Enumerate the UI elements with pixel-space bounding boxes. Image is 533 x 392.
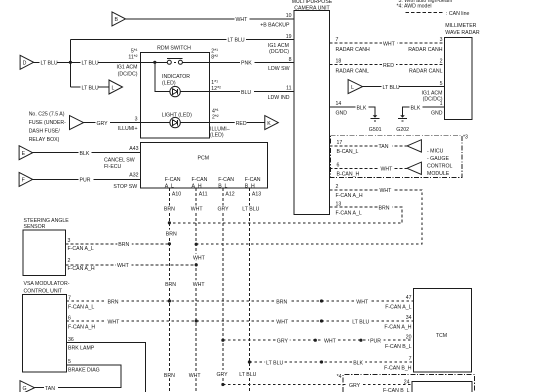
wire RED label <box>235 119 247 126</box>
svg-text:BRAKE DIAG: BRAKE DIAG <box>68 368 100 374</box>
svg-text:LT BLU: LT BLU <box>352 319 369 325</box>
ground G202 <box>400 115 405 118</box>
wire BLU label to camera pin 11 <box>240 88 254 95</box>
svg-text:RED: RED <box>236 121 247 127</box>
F-CAN B_H bus wire LT BLU (PCM A13 down) <box>248 188 250 392</box>
wire camera pin 18 to radar pin 2 (RED CAN) <box>330 64 445 66</box>
svg-text:GRY: GRY <box>349 383 361 389</box>
wire camera pin 7 to radar pin 3 (WHT CAN) <box>330 42 445 44</box>
svg-text:8*²: 8*² <box>211 54 218 60</box>
svg-text:G501: G501 <box>369 127 382 133</box>
node riser wire <box>69 39 71 87</box>
svg-text:12*²: 12*² <box>211 86 221 92</box>
connector L (out) <box>109 80 123 94</box>
svg-text:FI-ECU: FI-ECU <box>104 164 122 170</box>
svg-text:- GAUGE: - GAUGE <box>427 156 449 162</box>
millimeter wave radar unit <box>444 38 472 120</box>
light LED symbol <box>170 117 180 127</box>
connector E <box>19 146 32 160</box>
indicator LED symbol <box>170 86 180 96</box>
svg-text:BLK: BLK <box>411 105 421 111</box>
junction pin2 to WHT bus <box>195 263 198 266</box>
wire GRY bus to AWD pin 24 (GRY CAN) <box>223 384 412 386</box>
svg-text:LT BLU: LT BLU <box>82 61 99 67</box>
svg-text:G: G <box>23 386 27 392</box>
svg-text:5: 5 <box>440 81 443 87</box>
wire camera pin 13 to F-CAN A_L bus (BRN CAN) <box>169 207 402 223</box>
svg-text:+B BACKUP: +B BACKUP <box>260 23 290 29</box>
connector F <box>19 172 32 186</box>
wire fuse row through light LED to connector K (RED) <box>141 122 265 124</box>
wire sensor pin 2 to WHT bus (WHT CAN) <box>66 264 197 266</box>
svg-text:F-CAN: F-CAN <box>192 177 208 183</box>
wire VSA pin 7 to TCM pin 47 (BRN/WHT CAN) <box>66 300 413 302</box>
F-CAN A_L bus wire BRN (PCM A10 down) <box>168 188 170 392</box>
svg-text:5: 5 <box>68 359 71 365</box>
svg-text:- MICU: - MICU <box>427 148 444 154</box>
svg-text:2: 2 <box>68 258 71 264</box>
svg-text:GRY: GRY <box>97 121 109 127</box>
wire node to connector L (LT BLU) <box>70 86 109 88</box>
svg-text:(LED): (LED) <box>162 81 176 87</box>
svg-text:18: 18 <box>336 59 342 65</box>
svg-text:A10: A10 <box>172 191 181 197</box>
connector B <box>112 12 126 26</box>
svg-text:: CAN line: : CAN line <box>446 11 469 17</box>
svg-text:11: 11 <box>286 86 291 92</box>
wire VSA pin 6 to TCM pin 34 (WHT/LT BLU CAN) <box>66 320 413 322</box>
svg-text:A12: A12 <box>225 191 234 197</box>
svg-text:34: 34 <box>406 315 412 321</box>
svg-text:WHT: WHT <box>324 339 337 345</box>
svg-text:RADAR CANH: RADAR CANH <box>336 47 371 53</box>
svg-text:CONTROL: CONTROL <box>427 163 452 169</box>
svg-text:F: F <box>22 178 25 184</box>
junction camera A_H to bus <box>195 243 198 246</box>
svg-text:3: 3 <box>440 37 443 43</box>
svg-text:F-CAN A_L: F-CAN A_L <box>68 246 94 252</box>
svg-text:F-CAN B_L: F-CAN B_L <box>383 388 410 392</box>
svg-text:MULTIPURPOSE: MULTIPURPOSE <box>292 0 333 5</box>
svg-text:BRN: BRN <box>379 206 390 212</box>
wire D to node (LT BLU) <box>34 61 141 63</box>
MICU triangle 2 <box>407 162 421 174</box>
svg-text:*4: *4 <box>337 374 342 380</box>
wire F to PCM A32 (PUR) <box>33 178 141 180</box>
svg-text:GRY: GRY <box>277 339 289 345</box>
wire VSA pin 5 brake diag to connector G (TAN) <box>35 365 122 388</box>
svg-text:F-CAN A_H: F-CAN A_H <box>384 325 411 331</box>
multipurpose camera unit U-CAM <box>294 11 330 215</box>
PCM box <box>141 142 268 188</box>
svg-text:BRK LAMP: BRK LAMP <box>68 346 95 352</box>
svg-text:No. C25 (7.5 A): No. C25 (7.5 A) <box>29 112 65 118</box>
bus colour labels row 2 <box>164 280 177 287</box>
svg-text:BLK: BLK <box>80 151 90 157</box>
junction node on D wire <box>69 61 72 64</box>
svg-text:WHT: WHT <box>191 207 204 213</box>
connector G <box>20 381 35 392</box>
svg-text:MODULE: MODULE <box>427 171 450 177</box>
svg-text:WHT: WHT <box>117 263 130 269</box>
junction pin3 to BRN bus <box>168 242 171 245</box>
wire switch row to camera pin 8 (PNK) <box>141 61 294 63</box>
svg-text:*3: *3 <box>463 135 468 141</box>
svg-text:A13: A13 <box>252 191 261 197</box>
svg-text:WHT: WHT <box>189 373 202 379</box>
svg-text:A32: A32 <box>129 173 138 179</box>
svg-text:F-CAN A_H: F-CAN A_H <box>336 193 363 199</box>
svg-text:WHT: WHT <box>381 167 394 173</box>
svg-text:BRN: BRN <box>276 299 287 305</box>
switch bar <box>167 58 183 60</box>
svg-text:BRN: BRN <box>108 299 119 305</box>
svg-text:BRN: BRN <box>165 282 176 288</box>
TCM box <box>414 289 472 373</box>
svg-text:7: 7 <box>336 37 339 43</box>
svg-text:BRN: BRN <box>118 242 129 248</box>
svg-text:10: 10 <box>286 13 292 19</box>
wire camera pin 2 to F-CAN A_H bus (WHT CAN) <box>196 190 422 244</box>
F-CAN A_H bus wire WHT (PCM A11 down) <box>195 188 197 392</box>
svg-text:BLK: BLK <box>353 360 363 366</box>
svg-text:E: E <box>22 151 26 157</box>
svg-text:RADAR CANL: RADAR CANL <box>409 68 443 74</box>
connector K (out) <box>265 116 279 130</box>
wire L to radar pin 5 (LT BLU) <box>363 86 445 88</box>
svg-text:F-CAN A_L: F-CAN A_L <box>68 305 94 311</box>
switch contact gap <box>172 61 179 64</box>
fuse connector triangle <box>70 116 84 130</box>
svg-text:GND: GND <box>431 111 443 117</box>
svg-text:LDW IND: LDW IND <box>268 95 290 101</box>
svg-text:SENSOR: SENSOR <box>24 224 46 230</box>
svg-text:ILLUMI+: ILLUMI+ <box>118 126 138 132</box>
svg-text:(DC/DC): (DC/DC) <box>269 49 289 55</box>
svg-text:WAVE RADAR: WAVE RADAR <box>445 30 480 36</box>
svg-text:20: 20 <box>406 334 412 340</box>
svg-text:VSA MODULATOR-: VSA MODULATOR- <box>24 281 70 287</box>
MICU triangle 1 <box>407 140 421 152</box>
svg-text:CAMERA UNIT: CAMERA UNIT <box>294 5 330 11</box>
svg-text:3: 3 <box>135 116 138 122</box>
svg-text:LT BLU: LT BLU <box>266 360 283 366</box>
svg-text:WHT: WHT <box>356 299 369 305</box>
svg-text:3: 3 <box>68 238 71 244</box>
svg-text:14: 14 <box>336 101 342 107</box>
svg-text:B-CAN_L: B-CAN_L <box>337 149 359 155</box>
svg-text:7: 7 <box>409 356 412 362</box>
svg-text:F-CAN A_H: F-CAN A_H <box>68 266 95 272</box>
svg-text:A43: A43 <box>129 146 138 152</box>
svg-text:36: 36 <box>68 337 74 343</box>
svg-text:*4: AWD model: *4: AWD model <box>397 4 432 10</box>
junction inside RDM <box>153 61 156 64</box>
svg-text:IG1 ACM: IG1 ACM <box>116 65 137 71</box>
svg-text:TAN: TAN <box>379 144 389 150</box>
svg-text:WHT: WHT <box>108 319 121 325</box>
svg-text:(LED): (LED) <box>210 132 224 138</box>
svg-text:24: 24 <box>404 380 410 386</box>
svg-text:LT BLU: LT BLU <box>242 207 259 213</box>
svg-text:CANCEL SW: CANCEL SW <box>104 157 135 163</box>
svg-text:TCM: TCM <box>436 333 447 339</box>
svg-text:LT BLU: LT BLU <box>239 372 256 378</box>
wire camera pin 14 to ground G501 (BLK) <box>330 107 376 115</box>
wire camera pin 17 to MICU (TAN CAN) <box>330 145 408 147</box>
AWD module dash-dot box *4 <box>343 375 475 392</box>
BRN label below A_L junction <box>165 230 178 237</box>
svg-text:LT BLU: LT BLU <box>383 85 400 91</box>
svg-text:F-CAN A_L: F-CAN A_L <box>385 305 411 311</box>
svg-text:K: K <box>267 121 271 127</box>
wire junction down to indicator LED <box>155 62 294 91</box>
RDM switch box <box>141 52 210 137</box>
ground G501 <box>373 115 378 118</box>
svg-text:F-CAN A_H: F-CAN A_H <box>68 325 95 331</box>
svg-text:47: 47 <box>406 295 412 301</box>
WHT label below A_H junction <box>192 254 207 261</box>
svg-text:1: 1 <box>440 101 443 107</box>
svg-text:2*²: 2*² <box>212 114 219 120</box>
svg-text:FUSE (UNDER-: FUSE (UNDER- <box>29 120 66 126</box>
svg-text:DASH FUSE/: DASH FUSE/ <box>29 129 61 135</box>
connector D <box>20 55 33 69</box>
svg-text:2: 2 <box>336 184 339 190</box>
svg-text:B: B <box>115 17 119 23</box>
svg-text:GND: GND <box>336 111 348 117</box>
svg-text:6: 6 <box>337 162 340 168</box>
svg-text:INDICATOR: INDICATOR <box>162 74 190 80</box>
svg-text:GRY: GRY <box>217 372 229 378</box>
svg-text:RADAR CANL: RADAR CANL <box>336 68 370 74</box>
svg-text:BLK: BLK <box>357 105 367 111</box>
svg-text:LT BLU: LT BLU <box>41 61 58 67</box>
junction camera A_L to bus <box>168 221 171 224</box>
svg-text:13: 13 <box>336 201 342 207</box>
wire E to PCM A43 (BLK) <box>33 152 141 154</box>
svg-text:F-CAN: F-CAN <box>165 177 181 183</box>
svg-text:17: 17 <box>337 140 343 146</box>
rear differential module box (cropped) <box>412 381 472 392</box>
svg-text:A11: A11 <box>199 191 208 197</box>
svg-text:LT BLU: LT BLU <box>228 38 245 44</box>
svg-text:GRY: GRY <box>218 207 230 213</box>
wire radar pin 1 to ground G202 (BLK) <box>403 107 445 115</box>
bus colour labels row 1 <box>163 206 176 213</box>
wire LT BLU bus to TCM pin 7 (LT BLU/BLK CAN) <box>249 361 413 363</box>
svg-text:F-CAN: F-CAN <box>218 177 234 183</box>
svg-text:PUR: PUR <box>80 178 91 184</box>
svg-text:L: L <box>112 85 115 91</box>
svg-text:WHT: WHT <box>380 188 393 194</box>
wire node to camera pin 19 (LT BLU) <box>70 38 294 40</box>
wire sensor pin 3 to BRN bus (BRN CAN) <box>66 243 170 245</box>
connector L (in) <box>348 80 362 94</box>
switch contacts <box>167 60 171 64</box>
CAN line legend sample <box>406 11 445 13</box>
svg-text:L: L <box>351 85 354 91</box>
svg-text:TAN: TAN <box>45 386 55 392</box>
svg-text:RADAR CANH: RADAR CANH <box>408 47 443 53</box>
wire VSA pin 36 brake lamp <box>66 343 145 392</box>
svg-text:F-CAN: F-CAN <box>245 177 261 183</box>
MICU gauge control module dash-dot box *3 <box>331 136 462 178</box>
svg-text:RED: RED <box>383 63 394 69</box>
svg-text:WHT: WHT <box>236 17 249 23</box>
svg-text:PCM: PCM <box>198 155 210 161</box>
svg-text:D: D <box>23 61 27 67</box>
svg-text:G202: G202 <box>396 127 409 133</box>
svg-text:WHT: WHT <box>383 41 396 47</box>
wire fuse to RDM pin 3 (GRY) <box>84 122 141 124</box>
svg-text:PNK: PNK <box>241 61 252 67</box>
svg-text:11*²: 11*² <box>128 54 137 60</box>
svg-text:LT BLU: LT BLU <box>82 85 99 91</box>
svg-text:PUR: PUR <box>370 339 381 345</box>
svg-text:BRN: BRN <box>164 373 175 379</box>
svg-text:STOP SW: STOP SW <box>113 184 137 190</box>
wire camera pin 6 to MICU (WHT CAN) <box>330 167 408 169</box>
svg-text:BRN: BRN <box>164 207 175 213</box>
svg-text:STEERING ANGLE: STEERING ANGLE <box>24 218 70 224</box>
svg-text:2: 2 <box>440 59 443 65</box>
svg-text:MILLIMETER: MILLIMETER <box>445 23 476 29</box>
VSA modulator-control unit box <box>23 295 67 372</box>
svg-text:BLU: BLU <box>241 90 251 96</box>
bus colour labels row 3 <box>163 371 176 378</box>
wire GRY bus to TCM pin 20 (GRY/WHT/PUR CAN) <box>223 339 414 341</box>
svg-text:(DC/DC): (DC/DC) <box>118 71 138 77</box>
svg-text:WHT: WHT <box>193 282 206 288</box>
svg-text:RELAY BOX): RELAY BOX) <box>29 137 60 143</box>
F-CAN B_L bus wire GRY (PCM A12 down) <box>222 188 224 384</box>
svg-text:CONTROL UNIT: CONTROL UNIT <box>24 288 64 294</box>
svg-text:WHT: WHT <box>276 319 289 325</box>
svg-text:BRN: BRN <box>166 231 177 237</box>
steering angle sensor box <box>23 230 66 276</box>
svg-text:F-CAN B_L: F-CAN B_L <box>385 344 412 350</box>
wire B to camera pin 10 (WHT) <box>126 18 295 20</box>
svg-text:LDW SW: LDW SW <box>268 66 289 72</box>
svg-text:F-CAN A_L: F-CAN A_L <box>336 211 362 217</box>
svg-text:WHT: WHT <box>193 256 206 262</box>
svg-text:F-CAN B_H: F-CAN B_H <box>384 366 412 372</box>
svg-text:B-CAN_H: B-CAN_H <box>337 171 360 177</box>
svg-text:RDM SWITCH: RDM SWITCH <box>157 45 191 51</box>
